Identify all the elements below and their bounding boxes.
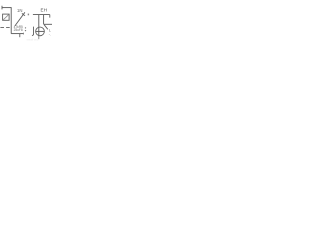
background bbox=[0, 0, 52, 52]
junction dot bbox=[28, 14, 29, 16]
arrow diagonal bbox=[44, 25, 48, 30]
wire below lamp bbox=[38, 36, 40, 39]
wire top-middle horizontal bbox=[33, 14, 50, 16]
wire top-left horizontal bbox=[2, 7, 11, 9]
colon dots bbox=[25, 27, 26, 28]
switch blade S1 bbox=[15, 12, 25, 26]
lamp circle P1 bbox=[36, 27, 45, 36]
switch tick cross bbox=[22, 13, 25, 15]
lamp cross horizontal bbox=[36, 30, 44, 32]
svg-text:25uF8: 25uF8 bbox=[14, 28, 23, 32]
lamp cross vertical bbox=[38, 28, 40, 36]
wire right vertical bbox=[43, 15, 45, 24]
wire drop to lamp bbox=[38, 15, 40, 28]
bracket line left of lamp bbox=[32, 27, 34, 36]
wire left vertical bus bbox=[10, 7, 12, 33]
svg-text:EH: EH bbox=[41, 8, 48, 13]
wire bottom-left horizontal bbox=[11, 33, 24, 35]
svg-text:1N: 1N bbox=[17, 8, 23, 13]
wire right horizontal to edge bbox=[44, 23, 52, 25]
stub below wire bbox=[19, 34, 21, 38]
relay coil box K1 bbox=[3, 14, 10, 20]
terminal tick left bbox=[1, 6, 3, 10]
wire end tick bbox=[23, 33, 25, 35]
svg-text:small text: small text bbox=[27, 37, 39, 41]
svg-text:-.: -. bbox=[49, 33, 51, 37]
corner stub down right bbox=[49, 15, 51, 18]
box diagonal bbox=[3, 15, 9, 20]
dashed linkage line bbox=[0, 27, 11, 29]
